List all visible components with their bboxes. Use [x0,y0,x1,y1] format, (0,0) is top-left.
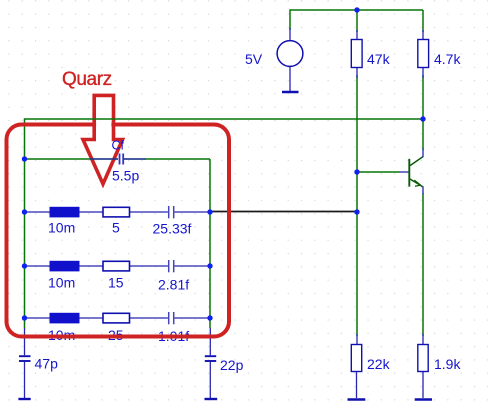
capacitor Cf 5.5p plates [119,154,121,165]
junction right rail branch 1 [207,209,212,214]
branch 3 wire [25,317,168,319]
ground bar of R7 [415,398,432,400]
junction right rail branch 2 [207,263,212,268]
svg-text:2.81f: 2.81f [158,277,189,293]
voltage source V1 5V body [277,41,303,67]
svg-text:5V: 5V [245,51,263,67]
svg-text:22p: 22p [220,357,244,373]
resistor R2 15 [103,261,130,271]
junction divider node [354,209,359,214]
resistor R4 47k leads [356,30,358,40]
transistor Q1 base bar [408,159,410,187]
svg-text:10m: 10m [48,219,75,235]
capacitor C4 47p lower lead [24,362,26,398]
junction left rail branch 2 [22,263,27,268]
capacitor C5 22p lead [209,328,211,355]
svg-text:22k: 22k [367,356,391,372]
wire: long horizontal net crystal-top to 4.7k rail [25,119,424,159]
resistor R5 4.7k body [418,40,429,68]
transistor Q1 base lead [400,171,409,173]
transistor Q1 emitter diagonal [410,179,423,187]
svg-text:Quarz: Quarz [62,69,112,90]
capacitor C4 47p lead [24,328,26,355]
wire: 4.7k bottom to collector [422,75,424,150]
wire: base net from 22k rail [357,171,400,173]
resistor R7 1.9k leads [422,334,424,345]
resistor R5 4.7k leads [422,30,424,40]
crystal model enclosure (red rounded box) [7,125,230,337]
svg-text:10m: 10m [48,274,75,290]
transistor Q1 collector lead [422,149,424,158]
ground bar of C5 [205,398,218,400]
resistor R3 25 [103,313,130,323]
svg-text:47p: 47p [35,356,59,372]
resistor R1 5 [103,207,130,217]
junction right rail branch 3 [207,315,212,320]
capacitor C1 25.33f plates [168,206,170,218]
wire: crystal left rail [24,159,26,328]
capacitor C4 47p plates [19,355,31,357]
ground bar of R6 [348,398,366,400]
svg-text:4.7k: 4.7k [434,51,461,67]
wire: top supply rail [290,10,423,30]
inductor L2 10m [50,261,79,271]
svg-text:15: 15 [108,274,124,290]
white gap in box edge inside arrow shaft [96,122,111,128]
wire: 47k bottom to 22k top [356,75,358,336]
wire: 47k top drop [356,10,358,32]
annotation arrow (white fill) [83,95,123,184]
inductor L3 10m [50,313,79,323]
transistor Q1 emitter lead [422,187,424,195]
junction base net [354,169,359,174]
junction left rail top cap row [22,156,27,161]
svg-text:25.33f: 25.33f [153,221,192,237]
svg-text:Cf: Cf [112,139,125,153]
svg-text:47k: 47k [367,51,391,67]
capacitor Cf 5.5p leads [90,158,118,160]
wire: crystal output to divider node (black) [210,211,357,213]
wire: crystal right rail [209,159,211,328]
voltage source V1 5V leads [289,28,291,40]
transistor Q1 collector diagonal [410,157,423,166]
wire: 4.7k top drop [422,10,424,32]
svg-text:5.5p: 5.5p [112,168,139,184]
svg-text:5: 5 [112,219,120,235]
resistor R6 22k body [351,345,361,372]
wire: series cap row left segment [25,158,119,160]
resistor R4 47k body [351,40,362,68]
branch 2 wire [25,265,168,267]
ground bar of C4 [18,398,30,400]
inductor L1 10m [50,207,79,217]
wire: series cap row right segment [124,158,211,160]
junction long wire at 4.7k rail [420,116,425,121]
capacitor C2 2.81f plates [168,260,170,272]
junction top rail [354,7,359,12]
transistor Q1 emitter arrow [414,180,421,186]
junction left rail branch 1 [22,209,27,214]
capacitor C5 22p plates [205,355,216,357]
resistor R6 22k leads [356,334,358,345]
resistor R7 1.9k body [418,345,428,372]
capacitor C3 1.01f plates [168,312,170,324]
ground bar of V1 [282,91,299,93]
svg-text:1.9k: 1.9k [434,356,461,372]
branch 1 wire [25,211,168,213]
wire: emitter rail down to 1.9k [422,193,424,336]
junction left rail branch 3 [22,315,27,320]
capacitor C5 22p lower lead [209,362,211,398]
